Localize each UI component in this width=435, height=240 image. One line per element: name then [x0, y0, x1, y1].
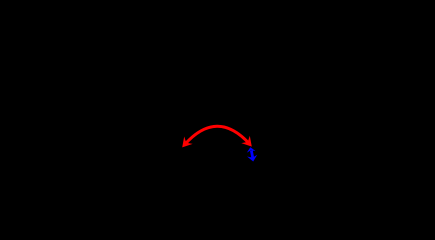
- left arrowhead of red curved arrow: [178, 137, 193, 152]
- bottom arrowhead of blue arrow: [247, 155, 258, 163]
- proton-shift arrow (blue, double-headed vertical): [251, 151, 252, 158]
- top arrowhead of blue arrow: [246, 147, 255, 153]
- right arrowhead of red curved arrow: [241, 136, 256, 151]
- curved electron-pushing arrow (red, double-headed arc): [184, 126, 250, 145]
